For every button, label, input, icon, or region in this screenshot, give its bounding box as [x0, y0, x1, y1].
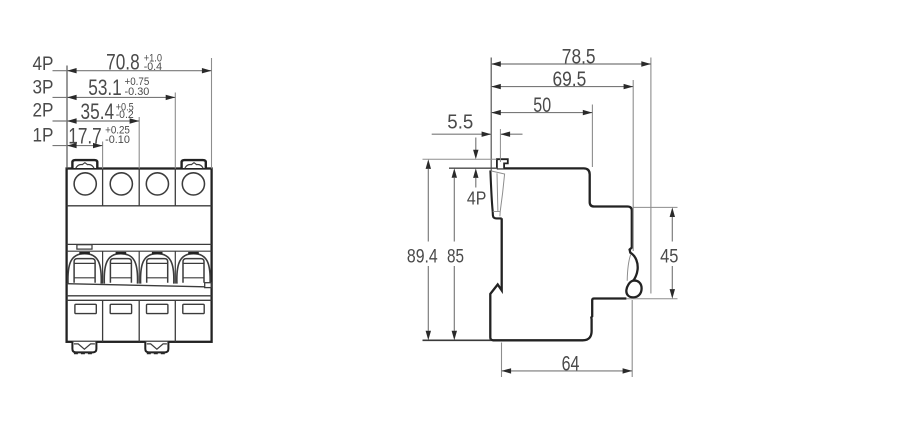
front view: top DIN tab left — [72, 160, 97, 168]
side view: extension line 50 right — [591, 105, 593, 168]
svg-text:45: 45 — [660, 246, 678, 268]
svg-text:1P: 1P — [33, 124, 54, 146]
front view: bottom DIN clip tab at x 145.3 — [145, 342, 168, 353]
side view: 45 bottom extension line — [627, 298, 678, 300]
side view: dimension 64 — [502, 351, 633, 375]
front view: left extension line — [66, 66, 68, 169]
side view: small clip height dimension with 4P label — [467, 138, 487, 209]
side view: dimension 89.4 — [407, 159, 438, 340]
svg-text:4P: 4P — [467, 187, 487, 208]
side view: 64 left extension line — [501, 343, 503, 378]
front view: pole divider lines lower section — [103, 300, 176, 342]
svg-text:53.1: 53.1 — [88, 75, 122, 100]
svg-text:-0.2: -0.2 — [116, 109, 134, 121]
front view: dimension 35.4 (2P) — [33, 99, 140, 124]
svg-text:17.7: 17.7 — [68, 124, 102, 149]
side view: body top extension line — [449, 167, 497, 169]
side view: 64 right extension line — [631, 300, 633, 377]
front view: toggle recess arch pole 4 — [177, 253, 210, 284]
front view: bottom terminal window pole 3 — [147, 304, 168, 313]
side view: dimension 5.5 — [432, 110, 523, 162]
front view: dimension 17.7 (1P) — [33, 124, 130, 149]
front view: bottom terminal window pole 1 — [75, 304, 96, 313]
front view: toggle recess arch pole 1 — [68, 253, 101, 284]
front view: toggle recess arch pole 2 — [104, 253, 137, 284]
side view: body bottom extension line — [423, 339, 492, 341]
front view: dimension 70.8 (4P) — [33, 50, 212, 75]
svg-text:-0.10: -0.10 — [105, 134, 130, 146]
svg-text:2P: 2P — [33, 99, 54, 121]
svg-text:-0.4: -0.4 — [144, 61, 162, 73]
front view: toggle handle pole 2 — [110, 259, 131, 283]
side view: 45 top extension line — [634, 206, 678, 208]
side view: extension line 78.5 right — [650, 58, 652, 294]
front view: terminal circle pole 3 — [146, 173, 168, 195]
front view: terminal circle pole 4 — [182, 173, 204, 195]
svg-text:35.4: 35.4 — [81, 99, 115, 124]
side view: clip top extension line — [423, 158, 497, 160]
svg-text:78.5: 78.5 — [562, 45, 596, 69]
front view: bottom DIN clip tab at x 72.4 — [72, 342, 96, 353]
svg-text:3P: 3P — [33, 77, 54, 99]
front view: MCB body outline — [67, 169, 212, 342]
front view: dimension 53.1 (3P) — [33, 75, 176, 100]
svg-text:4P: 4P — [33, 53, 54, 75]
svg-text:85: 85 — [447, 246, 464, 268]
front view: extension line 1P right — [102, 142, 104, 169]
side view: top clip hook tab — [497, 159, 508, 168]
side view: left extension line — [490, 58, 492, 172]
front view: extension line 3P right — [174, 93, 176, 169]
front view: pole divider lines upper section — [103, 169, 176, 206]
front view: top DIN tab right — [182, 160, 206, 168]
front view: face plate lower line — [67, 250, 212, 252]
front view: label window — [77, 245, 92, 249]
side view: body outline — [490, 168, 637, 340]
side view: dimension 78.5 — [491, 45, 651, 69]
front view: extension line 4P right — [211, 58, 213, 169]
front view: right edge notch — [205, 283, 212, 288]
front view: toggle handle pole 4 — [183, 259, 204, 283]
side view: dimension 85 — [447, 168, 464, 340]
front view: terminal circle pole 2 — [110, 173, 132, 195]
front view: toggle recess arch pole 3 — [141, 253, 174, 284]
side view: terminal clamp loop — [626, 281, 641, 298]
side view: dimension 50 — [491, 93, 592, 117]
side view: dimension 69.5 — [491, 67, 633, 91]
svg-text:64: 64 — [562, 351, 580, 375]
svg-text:69.5: 69.5 — [553, 67, 587, 91]
front view: face plate upper line — [67, 243, 212, 245]
side view: dimension 45 — [660, 207, 678, 298]
front view: toggle section bottom sloped line — [67, 284, 205, 287]
side view: terminal clamp inner line — [627, 255, 631, 281]
front view: top terminal section divider line — [67, 205, 212, 207]
front view: bottom terminal window pole 2 — [110, 304, 131, 313]
front view: bottom terminal window pole 4 — [183, 304, 204, 313]
front view: pole divider lines toggle section — [103, 251, 176, 283]
svg-text:5.5: 5.5 — [447, 110, 473, 133]
svg-text:-0.30: -0.30 — [125, 86, 150, 98]
side view: extension line 69.5 right — [632, 80, 634, 251]
svg-text:70.8: 70.8 — [106, 50, 140, 75]
side view: DIN clip release lever — [490, 170, 504, 218]
svg-text:89.4: 89.4 — [407, 246, 438, 268]
front view: extension line 2P right — [138, 117, 140, 169]
front view: toggle handle pole 3 — [147, 259, 168, 283]
front view: toggle handle pole 1 — [74, 259, 95, 283]
svg-text:50: 50 — [533, 93, 551, 117]
front view: terminal circle pole 1 — [74, 173, 96, 195]
front view: lower double rail lines — [67, 296, 212, 301]
